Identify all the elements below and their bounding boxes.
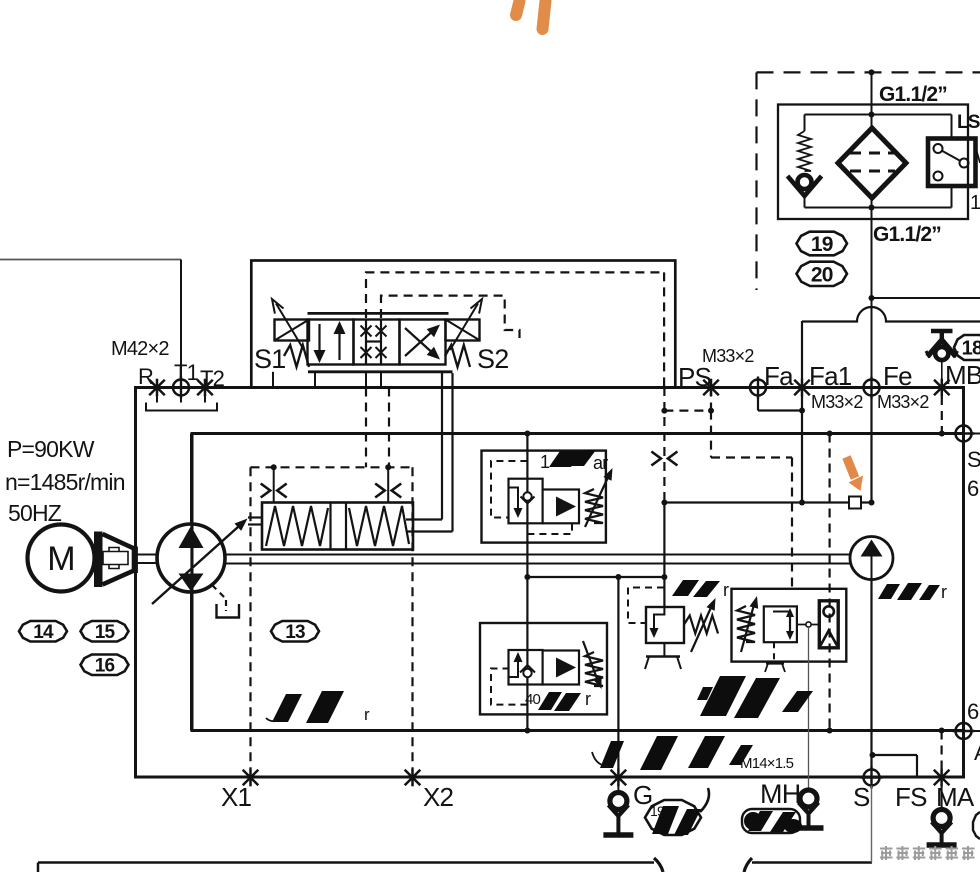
svg-text:20: 20 [811,263,833,286]
svg-text:R: R [138,364,153,389]
svg-text:r: r [723,580,729,600]
svg-text:P=90KW: P=90KW [7,436,95,462]
svg-text:1: 1 [970,192,980,214]
svg-text:A: A [974,740,980,765]
svg-text:PS: PS [678,362,712,392]
svg-text:S: S [967,447,980,472]
svg-text:40: 40 [525,691,541,708]
svg-text:S: S [853,782,870,812]
svg-text:W: W [975,146,980,168]
svg-text:T1: T1 [174,360,199,385]
svg-text:M42×2: M42×2 [111,338,169,360]
svg-text:X2: X2 [423,782,454,812]
svg-text:M33×2: M33×2 [877,392,929,412]
svg-text:G1.1/2”: G1.1/2” [873,223,941,246]
svg-text:18: 18 [962,338,980,360]
svg-text:13: 13 [285,622,305,643]
svg-text:15: 15 [95,622,116,643]
svg-text:MH: MH [760,779,800,809]
svg-text:6: 6 [967,699,979,724]
svg-text:M: M [47,540,75,578]
svg-text:Fa1: Fa1 [809,361,852,391]
svg-text:n=1485r/min: n=1485r/min [5,469,125,495]
svg-text:S1: S1 [254,344,285,374]
svg-text:Fe: Fe [883,361,912,391]
svg-text:M14×1.5: M14×1.5 [740,755,794,772]
svg-text:19: 19 [811,233,833,256]
svg-text:G1.1/2”: G1.1/2” [879,83,947,106]
svg-text:M33×2: M33×2 [811,392,863,412]
svg-text:X1: X1 [221,782,252,812]
svg-text:16: 16 [95,656,115,677]
svg-text:FS: FS [895,782,927,812]
svg-text:M33×2: M33×2 [702,346,754,366]
svg-text:Fa: Fa [764,361,794,391]
svg-text:r: r [941,582,947,602]
svg-text:14: 14 [33,622,54,643]
svg-text:r: r [585,689,591,709]
svg-text:LS: LS [957,112,980,133]
svg-text:MB: MB [945,360,980,390]
svg-text:6: 6 [967,476,979,501]
svg-text:ar: ar [593,453,608,473]
svg-text:1: 1 [540,452,550,472]
svg-text:S2: S2 [477,344,508,374]
svg-text:50HZ: 50HZ [8,500,62,526]
svg-text:T2: T2 [200,366,225,391]
